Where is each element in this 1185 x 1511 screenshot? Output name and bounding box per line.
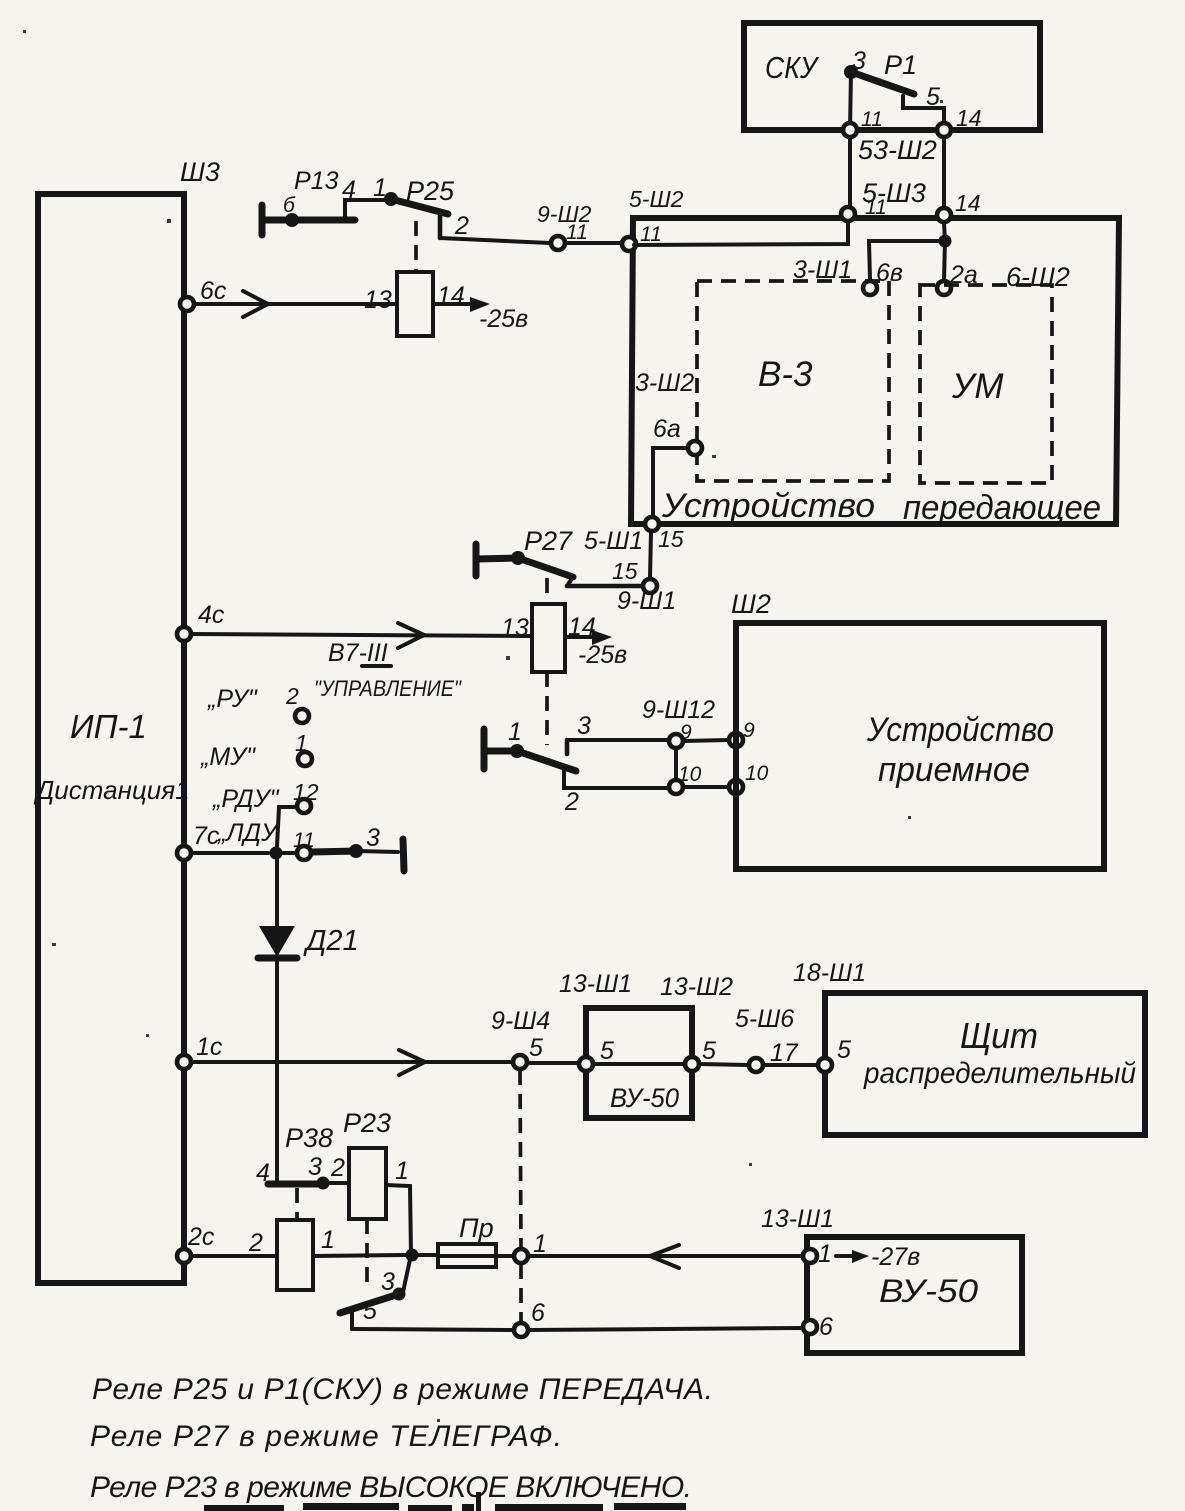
svg-text:Р23: Р23	[343, 1108, 391, 1138]
svg-text:Реле Р27 в режиме ТЕЛЕГРАФ.: Реле Р27 в режиме ТЕЛЕГРАФ.	[90, 1420, 562, 1453]
svg-text:3: 3	[366, 824, 380, 852]
svg-text:В7-III: В7-III	[328, 639, 388, 667]
svg-text:2: 2	[454, 212, 469, 240]
wire 2c row	[177, 1223, 277, 1263]
svg-text:5: 5	[363, 1297, 377, 1325]
svg-text:13: 13	[364, 286, 392, 314]
svg-text:В-3: В-3	[758, 355, 813, 394]
svg-text:-25в: -25в	[479, 305, 528, 333]
dashed link P27	[545, 672, 549, 745]
svg-text:Реле Р23 в режиме ВЫСОКОЕ ВКЛЮ: Реле Р23 в режиме ВЫСОКОЕ ВКЛЮЧЕНО.	[90, 1471, 692, 1504]
svg-text:„РДУ": „РДУ"	[212, 785, 280, 813]
svg-text:6: 6	[819, 1313, 833, 1341]
svg-text:4с: 4с	[198, 601, 225, 629]
contact МУ 1	[200, 730, 312, 771]
wire node 14 down to junction	[944, 223, 945, 241]
svg-text:9: 9	[743, 719, 755, 742]
relay coil Р23	[343, 1108, 409, 1219]
svg-text:Р1: Р1	[884, 50, 917, 80]
svg-text:5: 5	[926, 83, 940, 111]
relay coil (P13) 13-14	[364, 272, 528, 336]
wire 4c	[177, 601, 627, 669]
svg-text:5-Ш6: 5-Ш6	[735, 1005, 794, 1033]
connector 53-Ш2	[843, 105, 982, 208]
svg-text:Р13: Р13	[294, 167, 339, 195]
node 2а	[937, 281, 951, 295]
svg-text:4: 4	[342, 176, 356, 204]
svg-text:3: 3	[577, 712, 591, 740]
node 15 on box edge	[645, 517, 659, 531]
svg-text:„ЛДУ: „ЛДУ	[217, 819, 280, 847]
scan specks	[23, 30, 943, 1422]
svg-text:2: 2	[285, 683, 299, 709]
node 9-Ш2 11	[537, 201, 621, 250]
svg-text:Реле Р25 и Р1(СКУ) в режиме ПЕ: Реле Р25 и Р1(СКУ) в режиме ПЕРЕДАЧА.	[92, 1373, 713, 1406]
connector 5-Ш3	[841, 178, 981, 222]
svg-text:ВУ-50: ВУ-50	[879, 1273, 978, 1309]
node 6в	[863, 281, 877, 295]
svg-text:9-Ш12: 9-Ш12	[642, 696, 715, 724]
relay coil Р38	[248, 1123, 335, 1290]
svg-text:"УПРАВЛЕНИЕ": "УПРАВЛЕНИЕ"	[314, 676, 462, 701]
node 9-Ш4 5	[491, 1007, 578, 1069]
svg-text:11: 11	[566, 221, 588, 244]
svg-text:9-Ш4: 9-Ш4	[491, 1007, 550, 1035]
svg-text:Пр: Пр	[459, 1213, 494, 1243]
svg-text:Дистанция1: Дистанция1	[33, 775, 190, 805]
svg-text:„МУ": „МУ"	[200, 743, 256, 771]
svg-text:Устройство: Устройство	[661, 487, 875, 525]
wire 15 to 9-Ш1	[650, 532, 651, 578]
svg-text:2: 2	[564, 788, 579, 816]
svg-text:Ш3: Ш3	[180, 157, 220, 187]
svg-text:11: 11	[861, 108, 883, 131]
svg-text:5: 5	[600, 1037, 614, 1065]
svg-text:Щит: Щит	[960, 1015, 1038, 1056]
svg-text:2: 2	[248, 1229, 263, 1257]
contact Р38 4-3	[256, 1153, 349, 1218]
svg-text:6: 6	[531, 1299, 545, 1327]
node 7с ЛДУ row	[177, 819, 404, 871]
junction	[406, 1249, 419, 1262]
svg-text:18-Ш1: 18-Ш1	[793, 959, 866, 987]
node 6c	[180, 297, 194, 311]
box ВУ-50 bottom	[761, 1205, 1022, 1353]
svg-text:6а: 6а	[653, 415, 681, 443]
svg-text:Р27: Р27	[524, 526, 573, 556]
contact P27	[476, 526, 573, 604]
wire junction to 6в	[869, 241, 945, 280]
contact P13	[262, 167, 389, 235]
arrow left	[650, 1245, 679, 1268]
svg-text:53-Ш2: 53-Ш2	[858, 135, 937, 165]
box Щит распределительный	[793, 959, 1145, 1135]
svg-text:ИП-1: ИП-1	[70, 708, 147, 745]
svg-text:Р25: Р25	[406, 176, 455, 206]
svg-text:СКУ: СКУ	[765, 50, 820, 85]
svg-text:14: 14	[955, 190, 981, 216]
box Устройство передающее	[631, 218, 1119, 527]
svg-text:1с: 1с	[196, 1033, 223, 1061]
svg-text:10: 10	[678, 763, 702, 786]
svg-text:11: 11	[640, 223, 662, 246]
svg-text:5: 5	[702, 1037, 716, 1065]
svg-text:1: 1	[818, 1240, 832, 1268]
svg-text:приемное: приемное	[878, 751, 1030, 789]
svg-text:2с: 2с	[187, 1223, 215, 1251]
node 9-Ш1 15	[643, 579, 657, 593]
box СКУ	[744, 23, 1040, 130]
wire 1c row	[177, 1033, 512, 1075]
svg-text:Ш2: Ш2	[731, 589, 771, 619]
svg-text:11: 11	[865, 196, 887, 219]
svg-text:5-Ш1: 5-Ш1	[584, 527, 643, 555]
svg-text:2: 2	[330, 1154, 345, 1182]
wire 6c to relay coil	[192, 291, 490, 317]
svg-text:1: 1	[533, 1230, 547, 1258]
svg-text:13-Ш2: 13-Ш2	[660, 973, 733, 1001]
svg-text:распределительный: распределительный	[863, 1057, 1136, 1090]
dashed box УМ	[920, 285, 1052, 483]
relay coil P27 13-14	[501, 604, 596, 672]
svg-text:14: 14	[437, 282, 465, 310]
contact P25	[384, 176, 550, 272]
svg-text:Р38: Р38	[285, 1123, 333, 1153]
svg-text:10: 10	[745, 762, 769, 785]
contact P27 second	[484, 712, 668, 816]
svg-text:1: 1	[321, 1226, 335, 1254]
wire node 11 to node 5-Ш2	[634, 222, 848, 245]
node 6	[514, 1323, 528, 1337]
node 6а and wire to pin 15	[653, 415, 702, 516]
svg-text:передающее: передающее	[903, 489, 1101, 527]
contact РДУ 12	[212, 779, 319, 846]
dashed cable 9-Ш4	[520, 1070, 521, 1248]
connector 9-Ш12	[642, 696, 769, 794]
dashed box В-3	[697, 281, 889, 481]
svg-text:5-Ш2: 5-Ш2	[629, 186, 684, 212]
svg-text:17: 17	[770, 1039, 799, 1067]
svg-text:14: 14	[956, 105, 982, 131]
wire to P27 contact	[567, 584, 642, 589]
svg-text:3: 3	[381, 1268, 395, 1296]
svg-text:15: 15	[612, 558, 638, 584]
wire junction to 2а	[944, 241, 945, 280]
svg-text:Устройство: Устройство	[866, 711, 1054, 749]
contact Р23 3-5	[340, 1219, 406, 1329]
svg-text:-25в: -25в	[578, 641, 627, 669]
svg-text:4: 4	[256, 1159, 270, 1187]
svg-text:-27в: -27в	[871, 1243, 920, 1271]
svg-text:3: 3	[308, 1153, 322, 1181]
svg-text:1: 1	[508, 718, 522, 746]
svg-text:5: 5	[837, 1036, 851, 1064]
svg-text:9-Ш1: 9-Ш1	[617, 587, 676, 615]
svg-text:3-Ш2: 3-Ш2	[635, 369, 694, 397]
svg-text:13-Ш1: 13-Ш1	[559, 970, 632, 998]
fuse Пр	[438, 1213, 513, 1267]
contact P1	[844, 47, 944, 130]
junction	[939, 235, 952, 248]
svg-text:„РУ": „РУ"	[207, 685, 258, 713]
node 5-Ш2 11	[622, 186, 684, 251]
diode Д21	[258, 860, 359, 1181]
connector block ИП-1 Дистанция 1	[33, 157, 220, 1283]
svg-text:1: 1	[395, 1157, 409, 1185]
svg-text:5: 5	[529, 1034, 543, 1062]
box ВУ-50 top	[559, 970, 733, 1118]
svg-text:3: 3	[852, 47, 866, 75]
svg-text:6-Ш2: 6-Ш2	[1006, 262, 1070, 292]
svg-text:13-Ш1: 13-Ш1	[761, 1205, 834, 1233]
node 5-Ш6 17	[700, 1005, 817, 1072]
svg-text:6с: 6с	[200, 277, 227, 305]
contact РУ 2	[207, 683, 309, 723]
bottom wire	[352, 1329, 513, 1330]
node 1	[514, 1249, 528, 1263]
notes text	[90, 1373, 713, 1504]
svg-text:Д21: Д21	[303, 925, 359, 957]
label В7-III УПРАВЛЕНИЕ	[314, 639, 462, 701]
svg-text:б: б	[283, 194, 296, 217]
svg-text:15: 15	[658, 526, 684, 552]
svg-text:ВУ-50: ВУ-50	[610, 1083, 679, 1113]
svg-text:УМ: УМ	[951, 367, 1004, 406]
box Устройство приемное	[731, 589, 1104, 869]
svg-text:7с: 7с	[193, 822, 220, 850]
cut-off text marks at bottom edge	[204, 1492, 686, 1511]
